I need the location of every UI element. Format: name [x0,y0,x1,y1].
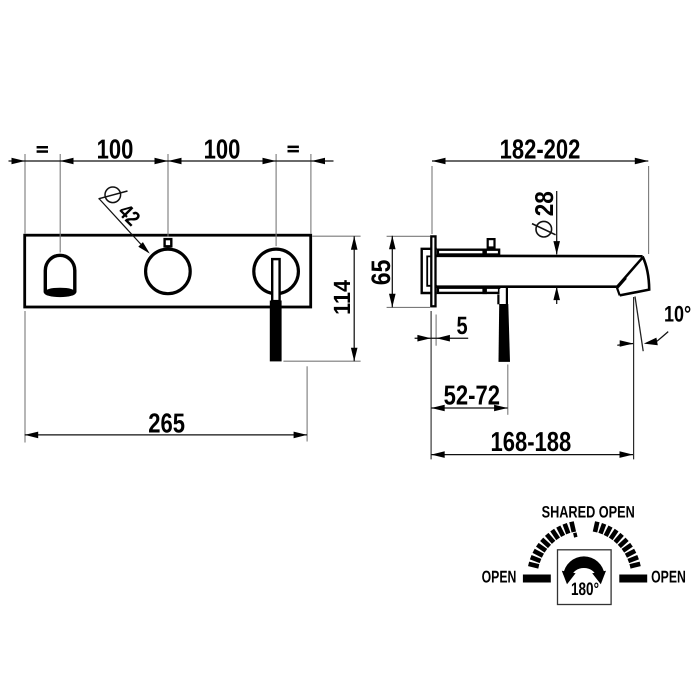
leader line diameter 42 [99,199,148,253]
arrow 114 top [351,236,358,250]
svg-text:5: 5 [456,312,467,340]
svg-text:265: 265 [148,407,185,438]
side view: cartridge black mark top [482,249,487,256]
extension line 65 top [387,235,430,237]
arrow 114 bottom [351,348,358,362]
side view: cartridge black mark bottom [482,288,487,294]
side view: spout tube top line [437,255,643,258]
side view: bottom collar [438,288,499,293]
arrow 182-202 left [432,158,446,165]
svg-text:SHARED OPEN: SHARED OPEN [542,504,635,522]
rotation arrowhead left [562,571,576,585]
side view: in-wall body outer box [422,249,437,293]
side view: lever neck [500,289,506,304]
extension line dome center [59,154,61,253]
arrow 100a right [155,158,169,165]
arrow 52-72 left [431,405,445,412]
extension line wall face long below [430,311,432,459]
extension line 114 top [312,235,360,237]
extension line plate right above [310,154,312,234]
extension line spout tip top [648,166,650,254]
arrow 52-72 right [494,405,508,412]
arrow diameter28 down [553,241,560,255]
knob index notch [165,239,172,246]
dimension line top side view 182-202 [432,160,648,162]
label eq right [288,146,299,153]
wall plate front view [25,235,311,307]
mixer lever solid front view [270,301,282,362]
side view: lever solid [499,304,511,362]
diameter symbol for 28 [532,221,556,237]
svg-text:28: 28 [531,191,559,216]
dimension line 168-188 [431,454,633,456]
svg-text:65: 65 [366,260,396,286]
spout outline (dome) front view [44,255,76,297]
extension line outlet vertical 10deg [633,297,635,459]
rotation arrow annulus [563,556,604,576]
arrow 182-202 right [635,158,649,165]
arrow 5 right [436,335,450,342]
open bar right [619,575,647,583]
arrow 168-188 right [620,451,634,458]
extension line wall face top [431,166,433,234]
progressive knob circle front view [146,249,191,294]
shared open diagram: dashed arc [529,522,641,567]
arrow 5 left [417,335,431,342]
svg-text:114: 114 [329,280,355,315]
side view: in-wall body inner box [427,256,437,285]
dimension line 114 [353,236,355,361]
dimension line 265 [25,434,307,436]
extension line 65 bottom [387,306,430,308]
mixer lever outline front view [272,259,279,301]
side view: tip main bevel diagonal [617,257,643,287]
extension line right knob center [275,154,277,246]
side view: spout tube bottom line [437,285,618,288]
side view: wall flange (plate edge-on) [431,236,435,306]
arrow 100b left [168,158,182,165]
svg-text:OPEN: OPEN [651,568,686,587]
rotation arrowhead right [592,571,606,585]
extension line plate left above [24,154,26,234]
dimension line diameter 28 lower [556,287,558,304]
dimension line diameter 28 upper [556,191,558,254]
arrow eq right [312,158,326,165]
svg-text:OPEN: OPEN [482,568,517,587]
svg-text:182-202: 182-202 [500,134,581,165]
arrow 265 left [25,432,39,439]
svg-text:10°: 10° [664,301,691,326]
dimension line 52-72 [431,407,507,409]
dimension line 65 [391,236,393,307]
extension line 114 bottom [283,360,360,362]
10deg left arrow tail [617,344,633,346]
side view: spout tip bevel [617,256,649,295]
mixer knob circle front view [254,249,299,294]
extension line flange right of 5 [435,315,437,346]
arrow 100b right [263,158,277,165]
arrow eq left [12,158,26,165]
svg-text:52-72: 52-72 [444,380,500,411]
svg-text:180°: 180° [571,579,599,599]
extension line plate left below [24,311,26,443]
svg-text:168-188: 168-188 [491,426,572,457]
svg-text:100: 100 [204,134,241,165]
side view: cartridge stem knob [488,239,495,247]
side view: top collar [438,250,499,255]
extension line lever bottom 52-72 [507,365,509,415]
arrow 10deg left [620,340,634,347]
dimension line top front view [9,160,334,162]
arrow diameter42 leader [138,242,150,254]
arrow 168-188 left [431,451,445,458]
open bar left [523,575,551,583]
arrow 265 right [294,432,308,439]
arrow 65 top [389,236,396,250]
arrow 100a left [60,158,74,165]
arrow 65 bottom [389,294,396,308]
dimension line 5 [415,337,469,339]
diameter symbol for 42 [99,187,128,203]
extension line plate right below [306,366,308,441]
arrow diameter28 up [553,287,560,301]
rotation box [558,550,612,605]
label eq left [37,146,48,153]
10deg tilted line [635,297,643,352]
side view: tip inner bevel line [617,278,626,288]
arrow 10deg right [644,338,658,346]
svg-text:100: 100 [97,134,134,165]
extension line mid knob center [167,154,169,237]
10deg right arc tail [657,332,668,342]
